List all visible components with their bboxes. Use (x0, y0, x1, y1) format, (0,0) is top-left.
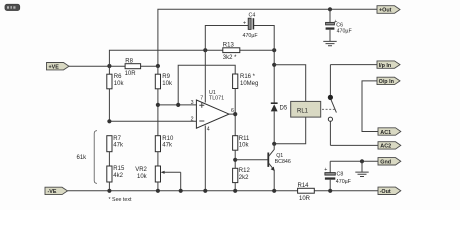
wire opamp output (229, 89, 235, 136)
svg-text:4: 4 (207, 127, 210, 133)
wire VR2 bottom (157, 182, 159, 191)
svg-text:R13: R13 (223, 42, 235, 48)
wire O/p-In to AC1 (362, 81, 378, 132)
wire R7-R15 (108, 152, 110, 166)
svg-text:BC846: BC846 (275, 159, 291, 165)
svg-text:+: + (324, 167, 327, 173)
svg-text:10R: 10R (125, 71, 137, 77)
svg-text:2k2: 2k2 (239, 175, 249, 181)
connector Gnd (378, 158, 401, 166)
relay RL1 (291, 101, 321, 117)
svg-text:10Meg: 10Meg (240, 81, 258, 87)
potentiometer VR2 (135, 166, 181, 191)
svg-text:I/p In: I/p In (379, 63, 392, 69)
resistor R6 (107, 66, 125, 121)
wire switch common to input (330, 64, 377, 66)
node R8/R9/top-rail (156, 64, 160, 68)
resistor R12 (233, 168, 251, 182)
wire R12 bottom (234, 183, 236, 191)
resistor R10 (155, 136, 174, 152)
node base junction (233, 158, 237, 162)
node R15 bottom (107, 189, 111, 193)
svg-text:Gnd: Gnd (380, 160, 391, 166)
svg-text:R6: R6 (114, 74, 122, 80)
wire opamp V+ pin7 (204, 50, 206, 102)
wire feedback R16 to pin3 (178, 65, 235, 105)
node pin2/R6-R7 (107, 119, 111, 123)
svg-text:4k2: 4k2 (113, 173, 123, 179)
op-amp U1 (191, 90, 234, 133)
node C8 bottom (328, 189, 332, 193)
svg-text:470µF: 470µF (243, 33, 259, 39)
node pin3/feedback (176, 103, 180, 107)
node gnd (360, 159, 364, 163)
bracket 61k (77, 131, 98, 184)
svg-text:C6: C6 (336, 22, 343, 28)
relay switch contact (322, 65, 336, 146)
capacitor C8 (324, 161, 351, 191)
svg-text:R15: R15 (113, 166, 125, 172)
connector +VE (47, 63, 70, 71)
resistor R8 (125, 58, 141, 77)
wire gnd row (330, 160, 378, 162)
connector -VE (45, 187, 68, 195)
svg-text:470µF: 470µF (336, 179, 352, 185)
svg-text:R14: R14 (298, 183, 310, 189)
wire +V riser to R13 row (109, 50, 274, 66)
svg-text:10k: 10k (239, 142, 250, 148)
resistor R16 (233, 74, 259, 89)
connector I/p In (377, 61, 400, 69)
node emitter (272, 189, 276, 193)
svg-text:R9: R9 (162, 74, 170, 80)
svg-text:10k: 10k (162, 81, 173, 87)
node output (233, 112, 237, 116)
svg-text:3k2 *: 3k2 * (223, 55, 237, 61)
connector AC1 (378, 128, 401, 136)
svg-text:C4: C4 (249, 13, 256, 19)
svg-text:7: 7 (200, 96, 203, 102)
wire +VE row (69, 65, 158, 67)
svg-text:C8: C8 (337, 172, 344, 178)
wire bottom rail (68, 190, 379, 192)
diode D5 (271, 50, 288, 144)
svg-text:AC1: AC1 (380, 130, 391, 136)
svg-text:+VE: +VE (49, 64, 60, 70)
resistor R14 (298, 183, 315, 202)
svg-text:R11: R11 (239, 136, 250, 142)
node +VE/R6/R8 (107, 64, 111, 68)
svg-text:-Out: -Out (380, 189, 391, 195)
svg-text:R16 *: R16 * (240, 74, 256, 80)
connector AC2 (378, 142, 401, 150)
svg-text:2: 2 (191, 116, 194, 122)
wire R11-R12 (234, 150, 236, 168)
svg-text:R12: R12 (239, 168, 251, 174)
node collector/D5/coil (272, 142, 276, 146)
resistor R15 (107, 166, 125, 182)
svg-text:-VE: -VE (48, 189, 57, 195)
capacitor C4 (243, 13, 259, 40)
wire relay coil bottom (274, 117, 306, 144)
svg-text:+Out: +Out (379, 8, 392, 14)
node pin4 (203, 189, 207, 193)
wire opamp V- pin4 (204, 126, 206, 191)
svg-text:10k: 10k (137, 174, 148, 180)
connector +Out (377, 6, 400, 14)
resistor R11 (233, 136, 250, 151)
svg-text:O/p In: O/p In (379, 79, 394, 85)
node pin3/R9-R10 (156, 103, 160, 107)
resistor R7 (107, 136, 124, 152)
connector -Out (378, 187, 401, 195)
node wiper (179, 189, 183, 193)
resistor R9 (155, 66, 173, 136)
transistor Q1 (235, 144, 291, 191)
wire C4 branch (205, 26, 274, 51)
node R13 row / opamp V+ (203, 48, 207, 52)
node R13 right / relay rail (272, 48, 276, 52)
ground (C6) (323, 41, 336, 45)
logo (5, 4, 20, 10)
node top-rail/C6 (328, 7, 332, 11)
svg-text:R10: R10 (162, 136, 174, 142)
wire switch NO to AC2 (330, 144, 378, 146)
node R12 bottom (233, 189, 237, 193)
wire pin3 row (158, 104, 197, 106)
svg-text:AC2: AC2 (380, 144, 391, 150)
wire R10-VR2 (157, 152, 159, 166)
wire top rail (158, 9, 377, 66)
node relay tap (272, 63, 276, 67)
resistor R13 (223, 42, 240, 61)
svg-text:47k: 47k (113, 142, 124, 148)
svg-text:+: + (243, 21, 246, 27)
svg-text:D5: D5 (280, 105, 288, 111)
svg-text:R8: R8 (125, 58, 133, 64)
ground (gnd row) (355, 161, 368, 176)
svg-text:* See text: * See text (109, 197, 132, 203)
node VR2 bottom (156, 189, 160, 193)
capacitor C6 (326, 9, 353, 41)
wire pin2 row (109, 120, 196, 122)
svg-text:61k: 61k (77, 155, 88, 161)
svg-text:470µF: 470µF (337, 29, 353, 35)
svg-text:RL1: RL1 (297, 109, 309, 115)
svg-text:10k: 10k (114, 81, 125, 87)
wire relay coil top (274, 65, 306, 102)
svg-text:R7: R7 (113, 136, 121, 142)
svg-text:10R: 10R (299, 196, 311, 202)
svg-text:3: 3 (191, 100, 194, 106)
svg-text:TL071: TL071 (209, 95, 224, 101)
svg-text:VR2: VR2 (135, 167, 147, 173)
svg-text:47k: 47k (162, 142, 173, 148)
connector O/p In (377, 77, 400, 85)
wire R15 bottom (108, 182, 110, 191)
